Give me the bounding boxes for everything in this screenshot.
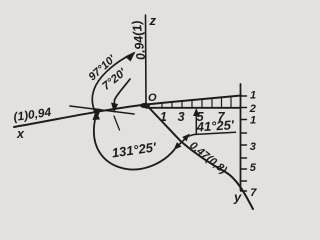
svg-text:1: 1	[160, 110, 167, 124]
right ruler tick 1	[241, 95, 247, 97]
svg-text:1: 1	[250, 114, 256, 126]
svg-text:y: y	[233, 189, 242, 204]
z axis	[145, 15, 148, 105]
arrowhead big arc left (pointing up)	[93, 110, 101, 120]
right ruler tick 9	[241, 190, 247, 192]
arrowhead 41deg25 down-left (at knot)	[174, 142, 182, 150]
arc 7deg20 leader	[114, 79, 130, 109]
svg-text:z: z	[149, 13, 157, 28]
x axis double-stroke artifact	[70, 106, 134, 114]
svg-text:3: 3	[250, 141, 256, 153]
svg-text:O: O	[148, 92, 157, 104]
scale rung 7	[221, 97, 223, 107]
scale rung 5	[201, 99, 203, 108]
scale rung 6	[211, 98, 213, 108]
scale rung 8	[230, 96, 232, 107]
right ruler tick 7	[241, 168, 247, 170]
oblique double-arrow through knot	[176, 136, 188, 147]
svg-text:x: x	[16, 127, 25, 141]
right ruler tick 6	[241, 157, 247, 159]
svg-text:7: 7	[218, 110, 226, 124]
right ruler tick 3	[241, 119, 247, 121]
arc 97deg10	[92, 53, 134, 115]
origin junction blob	[140, 103, 150, 108]
svg-text:3: 3	[178, 110, 185, 124]
svg-text:1: 1	[250, 89, 256, 101]
41deg25 vertical arrow line	[195, 111, 197, 134]
right ruler tick 8	[241, 180, 247, 182]
41deg25 leader to knot	[189, 135, 195, 137]
arrowhead 7deg20 (pointing down)	[111, 103, 118, 114]
scale rung 3	[181, 101, 183, 108]
scale rung 2	[171, 102, 173, 108]
big arc 131deg25	[94, 113, 175, 170]
arrowhead arc97 top (pointing up-right)	[125, 52, 136, 62]
x axis line	[14, 96, 241, 128]
arrowhead big arc right (pointing up-right)	[182, 134, 190, 142]
svg-text:2: 2	[249, 103, 256, 115]
right ruler tick 2	[241, 107, 247, 109]
svg-text:7: 7	[250, 187, 257, 199]
horizontal scale line	[146, 107, 241, 109]
y axis diagonal	[146, 105, 253, 210]
scale rung 4	[191, 100, 193, 108]
svg-text:5: 5	[250, 162, 257, 174]
right ruler vertical line	[240, 84, 242, 190]
scale rung 1	[161, 103, 163, 108]
svg-text:5: 5	[197, 110, 205, 124]
right ruler tick 5	[241, 144, 247, 146]
leader overshoot tail	[114, 116, 120, 130]
arrowhead arc97 bottom (pointing down)	[94, 108, 102, 119]
arrowhead 41deg25 up (at scale)	[193, 108, 200, 116]
right ruler tick 4	[241, 132, 247, 134]
41deg25 underline	[194, 132, 236, 134]
